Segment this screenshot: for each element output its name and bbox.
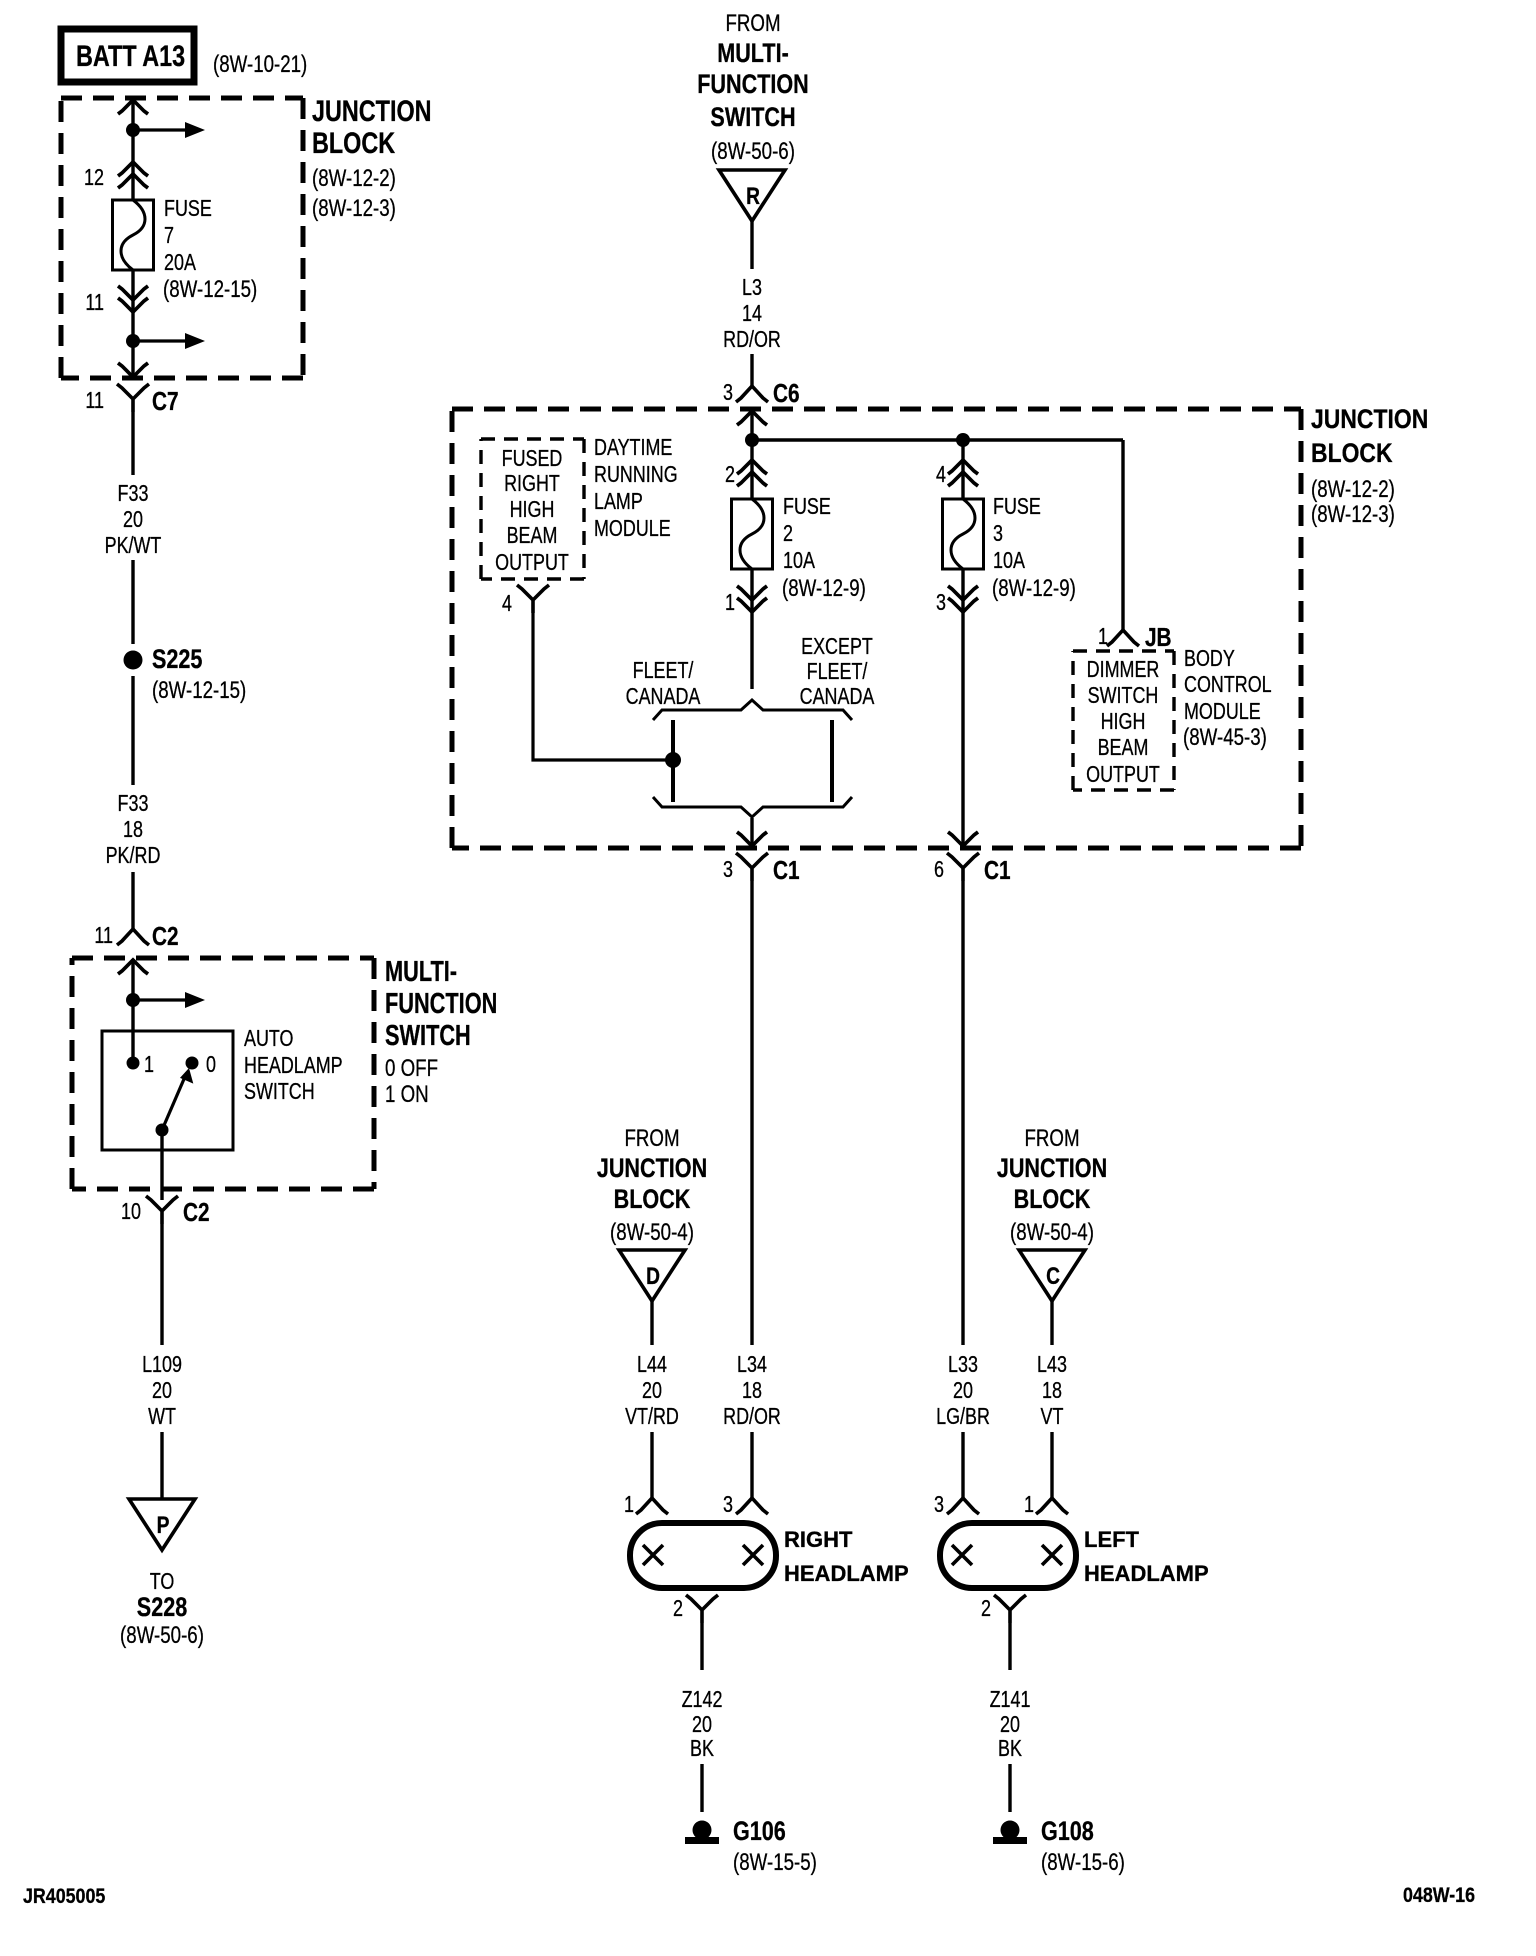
svg-text:HEADLAMP: HEADLAMP — [244, 1053, 343, 1079]
svg-text:OUTPUT: OUTPUT — [1086, 762, 1160, 788]
svg-text:(8W-12-3): (8W-12-3) — [312, 195, 396, 222]
svg-text:LG/BR: LG/BR — [936, 1404, 990, 1430]
arrow up at MFS top edge — [118, 960, 148, 974]
svg-text:10A: 10A — [783, 548, 815, 574]
node bus dot at fuse 2 — [745, 433, 759, 447]
ground G106 — [693, 1821, 712, 1840]
wire below fuse 7 — [131, 270, 134, 341]
svg-text:FUSE: FUSE — [783, 494, 831, 520]
fuse 2 (10A) — [732, 499, 773, 569]
svg-text:F33: F33 — [118, 481, 149, 507]
svg-text:FUSE: FUSE — [993, 494, 1041, 520]
svg-text:BLOCK: BLOCK — [1014, 1185, 1091, 1215]
svg-text:FROM: FROM — [624, 1125, 679, 1152]
svg-text:R: R — [746, 182, 760, 210]
arrow up at junction block 1 top edge — [118, 100, 148, 114]
svg-text:C1: C1 — [773, 856, 800, 885]
svg-text:20A: 20A — [164, 250, 196, 276]
svg-text:20: 20 — [152, 1378, 172, 1404]
svg-text:11: 11 — [85, 388, 104, 414]
off-page connector R — [719, 170, 785, 221]
svg-text:JR405005: JR405005 — [23, 1885, 105, 1909]
svg-text:L34: L34 — [737, 1352, 767, 1378]
wire C1-3 to right headlamp pin 3 — [750, 881, 753, 1345]
svg-text:0: 0 — [206, 1052, 216, 1078]
svg-text:SWITCH: SWITCH — [385, 1020, 471, 1052]
svg-text:VT: VT — [1041, 1404, 1064, 1430]
svg-text:BEAM: BEAM — [1098, 735, 1149, 761]
svg-text:JUNCTION: JUNCTION — [312, 94, 432, 127]
svg-text:FLEET/: FLEET/ — [633, 658, 694, 684]
wire bus to fuse 3 — [961, 440, 964, 499]
svg-text:MODULE: MODULE — [594, 516, 671, 542]
svg-text:FUNCTION: FUNCTION — [385, 988, 497, 1020]
svg-text:20: 20 — [692, 1712, 712, 1738]
wire L109 upper segment — [160, 1224, 163, 1345]
svg-text:3: 3 — [936, 590, 946, 616]
svg-text:6: 6 — [934, 857, 944, 883]
wire L109 lower segment — [160, 1432, 163, 1499]
option brace bottom — [653, 797, 852, 817]
svg-text:HEADLAMP: HEADLAMP — [1084, 1561, 1209, 1586]
svg-text:2: 2 — [981, 1596, 991, 1622]
svg-text:20: 20 — [1000, 1712, 1020, 1738]
svg-text:(8W-50-6): (8W-50-6) — [711, 138, 795, 165]
svg-text:12: 12 — [84, 165, 104, 191]
svg-text:L3: L3 — [742, 275, 762, 301]
svg-text:(8W-12-9): (8W-12-9) — [992, 575, 1076, 602]
svg-text:HIGH: HIGH — [1101, 709, 1146, 735]
svg-text:18: 18 — [1042, 1378, 1062, 1404]
svg-text:G108: G108 — [1041, 1817, 1094, 1847]
switch common contact — [156, 1124, 169, 1137]
arrow down at junction block 2 bottom (pin 3) — [737, 832, 767, 846]
connector fuse 3 pin 4 double chevron — [948, 460, 978, 486]
node splice on left branch — [665, 752, 681, 768]
option brace top — [653, 700, 852, 720]
svg-text:14: 14 — [742, 301, 762, 327]
svg-text:3: 3 — [993, 521, 1003, 547]
svg-text:(8W-12-15): (8W-12-15) — [163, 276, 257, 303]
connector fuse 2 pin 2 double chevron — [737, 460, 767, 486]
svg-text:BEAM: BEAM — [507, 523, 558, 549]
svg-text:C6: C6 — [773, 379, 800, 408]
svg-text:FUSE: FUSE — [164, 196, 212, 222]
svg-text:FROM: FROM — [1024, 1125, 1079, 1152]
svg-text:HIGH: HIGH — [510, 497, 555, 523]
svg-text:(8W-12-2): (8W-12-2) — [1311, 476, 1395, 503]
wire into auto headlamp switch — [131, 959, 134, 1063]
svg-text:4: 4 — [502, 591, 512, 617]
svg-text:(8W-12-15): (8W-12-15) — [152, 677, 246, 704]
switch actuator arrow — [162, 1079, 184, 1130]
wire fuse 3 to C1 pin 6 — [961, 569, 964, 846]
wire L43 lower segment — [1050, 1432, 1053, 1498]
wire Z142 upper segment — [700, 1623, 703, 1670]
switch contact 1 — [127, 1057, 140, 1070]
connector fuse 3 pin 3 double chevron — [948, 586, 978, 612]
svg-text:1: 1 — [725, 590, 735, 616]
svg-text:1: 1 — [1098, 624, 1108, 650]
svg-text:(8W-12-2): (8W-12-2) — [312, 165, 396, 192]
svg-text:RD/OR: RD/OR — [723, 327, 781, 353]
wire C1-6 to left headlamp pin 3 — [961, 881, 964, 1345]
svg-text:10A: 10A — [993, 548, 1025, 574]
option branch right wire — [830, 720, 834, 802]
svg-text:(8W-15-6): (8W-15-6) — [1041, 1849, 1125, 1876]
switch contact 0 — [186, 1057, 199, 1070]
svg-text:FUNCTION: FUNCTION — [697, 70, 809, 100]
svg-text:BODY: BODY — [1184, 646, 1235, 672]
svg-text:SWITCH: SWITCH — [710, 103, 795, 133]
wire A13 into junction block — [131, 99, 134, 200]
right headlamp low beam bulb — [643, 1545, 663, 1565]
wire Z142 lower segment — [700, 1764, 703, 1812]
left headlamp body — [940, 1523, 1076, 1588]
svg-text:(8W-50-4): (8W-50-4) — [1010, 1219, 1094, 1246]
svg-text:PK/WT: PK/WT — [105, 533, 162, 559]
svg-text:WT: WT — [148, 1404, 176, 1430]
svg-text:AUTO: AUTO — [244, 1026, 293, 1052]
svg-text:BLOCK: BLOCK — [312, 126, 396, 159]
svg-text:S228: S228 — [137, 1593, 187, 1623]
svg-text:L44: L44 — [637, 1352, 667, 1378]
svg-text:4: 4 — [936, 462, 946, 488]
svg-text:(8W-12-9): (8W-12-9) — [782, 575, 866, 602]
svg-text:FLEET/: FLEET/ — [807, 659, 868, 685]
svg-text:11: 11 — [94, 923, 113, 949]
wire to junction block 1 exit — [131, 341, 134, 377]
left headlamp high beam bulb — [1042, 1545, 1062, 1565]
off-page connector D — [619, 1250, 685, 1301]
svg-text:FROM: FROM — [725, 10, 780, 37]
wire from C connector — [1050, 1301, 1053, 1345]
node bus dot at fuse 3 — [956, 433, 970, 447]
svg-text:(8W-45-3): (8W-45-3) — [1183, 724, 1267, 751]
svg-text:(8W-12-3): (8W-12-3) — [1311, 501, 1395, 528]
svg-text:1: 1 — [624, 1492, 634, 1518]
left headlamp low beam bulb — [952, 1545, 972, 1565]
svg-text:L43: L43 — [1037, 1352, 1067, 1378]
svg-text:TO: TO — [150, 1569, 175, 1595]
svg-text:EXCEPT: EXCEPT — [801, 634, 873, 660]
svg-text:RIGHT: RIGHT — [784, 1527, 853, 1552]
svg-text:OUTPUT: OUTPUT — [495, 550, 569, 576]
svg-text:10: 10 — [121, 1199, 141, 1225]
svg-text:SWITCH: SWITCH — [1088, 683, 1159, 709]
wire from R connector — [750, 221, 753, 269]
wire C6 to bus — [750, 410, 753, 499]
splice S225 — [124, 651, 143, 670]
svg-text:BLOCK: BLOCK — [614, 1185, 691, 1215]
fuse 7 (20A) — [113, 200, 154, 270]
svg-text:D: D — [646, 1262, 660, 1290]
svg-text:0 OFF: 0 OFF — [385, 1055, 438, 1082]
svg-text:BK: BK — [998, 1736, 1022, 1762]
right headlamp high beam bulb — [743, 1545, 763, 1565]
connector pin 11 double chevron — [118, 286, 148, 312]
svg-text:PK/RD: PK/RD — [106, 843, 161, 869]
svg-text:048W-16: 048W-16 — [1403, 1884, 1475, 1908]
wire L33 lower segment — [961, 1432, 964, 1498]
svg-text:RD/OR: RD/OR — [723, 1404, 781, 1430]
wire Z141 upper segment — [1008, 1623, 1011, 1670]
svg-text:L109: L109 — [142, 1352, 182, 1378]
auto headlamp switch box — [102, 1031, 233, 1150]
svg-text:F33: F33 — [118, 791, 149, 817]
svg-text:BATT A13: BATT A13 — [76, 39, 185, 72]
svg-text:(8W-50-6): (8W-50-6) — [120, 1622, 204, 1649]
body control module dashed box — [1073, 649, 1174, 652]
multi-function switch dashed outline — [72, 956, 374, 961]
svg-text:2: 2 — [725, 462, 735, 488]
node junction dot with feed arrow (bottom) — [126, 334, 140, 348]
svg-text:JB: JB — [1145, 623, 1172, 652]
node junction dot with feed arrow (MFS) — [126, 993, 140, 1007]
right headlamp body — [630, 1523, 776, 1588]
wire from DRL module pin 4 — [533, 613, 673, 760]
svg-text:LEFT: LEFT — [1084, 1527, 1140, 1552]
wire L44 lower segment — [650, 1432, 653, 1498]
svg-text:(8W-50-4): (8W-50-4) — [610, 1219, 694, 1246]
svg-text:(8W-10-21): (8W-10-21) — [213, 51, 307, 78]
svg-text:18: 18 — [742, 1378, 762, 1404]
svg-text:CANADA: CANADA — [800, 684, 875, 710]
connector fuse 2 pin 1 double chevron — [737, 586, 767, 612]
svg-text:20: 20 — [123, 507, 143, 533]
svg-text:MULTI-: MULTI- — [717, 39, 789, 69]
svg-text:C2: C2 — [152, 922, 179, 951]
svg-text:P: P — [157, 1511, 170, 1539]
wire to C6 — [750, 354, 753, 386]
svg-text:VT/RD: VT/RD — [625, 1404, 679, 1430]
svg-text:Z141: Z141 — [990, 1687, 1031, 1713]
arrow down at junction block 2 bottom (pin 6) — [948, 832, 978, 846]
ground G108 — [1001, 1821, 1020, 1840]
svg-text:LAMP: LAMP — [594, 489, 643, 515]
svg-text:CANADA: CANADA — [626, 684, 701, 710]
wire below fuse 2 — [750, 569, 753, 689]
svg-text:BLOCK: BLOCK — [1311, 438, 1393, 468]
svg-text:20: 20 — [642, 1378, 662, 1404]
svg-text:FUSED: FUSED — [502, 446, 563, 472]
svg-text:C1: C1 — [984, 856, 1011, 885]
junction block 1 dashed outline — [61, 96, 303, 101]
daytime running lamp module dashed box — [481, 437, 584, 440]
svg-text:3: 3 — [723, 380, 733, 406]
wire F33 upper segment — [131, 412, 134, 475]
svg-text:C: C — [1046, 1262, 1060, 1290]
svg-text:2: 2 — [783, 521, 793, 547]
wire from D connector — [650, 1301, 653, 1345]
wire out of switch — [160, 1130, 163, 1200]
svg-text:JUNCTION: JUNCTION — [1311, 404, 1428, 434]
svg-text:Z142: Z142 — [682, 1687, 723, 1713]
svg-text:2: 2 — [673, 1596, 683, 1622]
svg-text:11: 11 — [85, 290, 104, 316]
svg-text:DIMMER: DIMMER — [1087, 657, 1160, 683]
svg-text:G106: G106 — [733, 1817, 786, 1847]
wire option to C1 pin 3 — [750, 818, 753, 846]
svg-text:L33: L33 — [948, 1352, 978, 1378]
svg-text:3: 3 — [934, 1492, 944, 1518]
off-page connector C — [1019, 1250, 1085, 1301]
svg-text:(8W-15-5): (8W-15-5) — [733, 1849, 817, 1876]
svg-text:HEADLAMP: HEADLAMP — [784, 1561, 909, 1586]
node junction dot with feed arrow (top) — [126, 123, 140, 137]
svg-text:3: 3 — [723, 857, 733, 883]
battery feed label box BATT A13 — [61, 29, 194, 82]
bus wire across junction block — [752, 438, 1123, 441]
svg-text:CONTROL: CONTROL — [1184, 672, 1272, 698]
svg-text:JUNCTION: JUNCTION — [997, 1154, 1107, 1184]
option branch left wire — [671, 720, 675, 802]
svg-text:S225: S225 — [152, 645, 202, 675]
wire L34 lower segment — [750, 1432, 753, 1498]
arrow down at junction block 1 bottom edge — [118, 363, 148, 377]
svg-text:1 ON: 1 ON — [385, 1081, 429, 1108]
svg-text:JUNCTION: JUNCTION — [597, 1154, 707, 1184]
svg-text:1: 1 — [1024, 1492, 1034, 1518]
svg-text:MODULE: MODULE — [1184, 699, 1261, 725]
wire Z141 lower segment — [1008, 1764, 1011, 1812]
svg-text:MULTI-: MULTI- — [385, 956, 457, 988]
svg-text:20: 20 — [953, 1378, 973, 1404]
wire F33 lower segment — [131, 676, 134, 785]
wire bus down to JB pin 1 — [1121, 440, 1124, 630]
svg-text:C7: C7 — [152, 387, 179, 416]
junction block 2 dashed outline — [452, 407, 1301, 412]
svg-text:C2: C2 — [183, 1198, 210, 1227]
svg-text:RIGHT: RIGHT — [504, 471, 560, 497]
svg-text:7: 7 — [164, 223, 174, 249]
connector pin 12 double chevron — [118, 162, 148, 188]
arrow up at junction block 2 top edge — [737, 411, 767, 425]
svg-text:1: 1 — [144, 1052, 154, 1078]
svg-text:DAYTIME: DAYTIME — [594, 435, 672, 461]
svg-text:RUNNING: RUNNING — [594, 462, 678, 488]
svg-text:SWITCH: SWITCH — [244, 1079, 315, 1105]
svg-text:3: 3 — [723, 1492, 733, 1518]
svg-text:BK: BK — [690, 1736, 714, 1762]
off-page connector P — [129, 1499, 195, 1550]
fuse 3 (10A) — [943, 499, 984, 569]
svg-text:18: 18 — [123, 817, 143, 843]
